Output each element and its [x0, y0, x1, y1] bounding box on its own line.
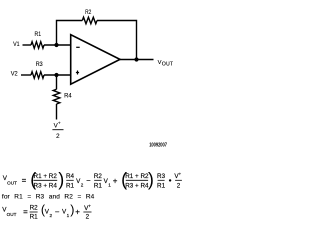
- svg-text:OUT: OUT: [162, 62, 173, 68]
- svg-text:for R1 = R3 and R2 = R4: for R1 = R3 and R2 = R4: [2, 193, 95, 200]
- svg-text:2: 2: [56, 133, 60, 140]
- svg-text:1: 1: [108, 182, 111, 187]
- svg-text:+: +: [58, 122, 61, 127]
- svg-text:+: +: [75, 208, 80, 217]
- svg-text:=: =: [22, 176, 27, 185]
- svg-text:R3: R3: [157, 173, 166, 180]
- svg-text:V2: V2: [11, 70, 18, 77]
- svg-text:R2: R2: [94, 173, 103, 180]
- wire V2 to R3: [21, 74, 31, 76]
- formula line 3: [2, 203, 91, 220]
- node A inverting input junction: [54, 43, 58, 47]
- svg-text:R3 + R4: R3 + R4: [125, 183, 149, 190]
- svg-text:−: −: [55, 207, 60, 216]
- svg-text:R1 + R2: R1 + R2: [34, 173, 58, 180]
- resistor R1: [31, 42, 44, 49]
- wire R4 to V+/2: [56, 104, 58, 120]
- wire op-amp output: [120, 59, 154, 61]
- wire R2 to output node: [97, 21, 137, 60]
- svg-text:R1: R1: [30, 213, 39, 220]
- svg-text:+: +: [88, 203, 91, 208]
- svg-text:2: 2: [81, 182, 84, 187]
- svg-text:2: 2: [86, 214, 90, 221]
- svg-text:+: +: [113, 176, 118, 185]
- svg-text:R4: R4: [66, 173, 75, 180]
- wire R3 to non-inverting input: [44, 74, 71, 76]
- op-amp U1: [71, 35, 120, 84]
- svg-text:=: =: [23, 207, 28, 216]
- svg-text:V1: V1: [13, 41, 20, 48]
- wire R1 to inverting input: [44, 44, 71, 46]
- svg-text:2: 2: [50, 213, 53, 218]
- svg-text:OUT: OUT: [7, 212, 17, 217]
- svg-text:R1: R1: [157, 183, 166, 190]
- wire V1 to R1: [23, 44, 32, 46]
- svg-text:R3: R3: [36, 61, 43, 68]
- svg-text:10092007: 10092007: [149, 142, 167, 148]
- formula line 1: [3, 170, 182, 190]
- svg-text:R1: R1: [35, 31, 42, 38]
- node output junction: [134, 57, 138, 61]
- svg-text:R4: R4: [64, 92, 72, 99]
- resistor R4: [53, 89, 60, 104]
- svg-text:): ): [70, 203, 74, 217]
- svg-text:R1: R1: [66, 183, 75, 190]
- resistor R2: [82, 17, 97, 24]
- svg-text:R2: R2: [30, 205, 39, 212]
- node B non-inverting input junction: [54, 73, 58, 77]
- resistor R3: [31, 72, 44, 79]
- svg-text:1: 1: [67, 213, 70, 218]
- svg-text:): ): [148, 170, 154, 190]
- svg-text:R2: R2: [85, 9, 92, 16]
- svg-text:2: 2: [177, 183, 181, 190]
- wire node A up and over to R2: [57, 21, 83, 46]
- svg-text:R1 + R2: R1 + R2: [125, 173, 149, 180]
- svg-text:R3 + R4: R3 + R4: [34, 183, 58, 190]
- svg-text:R1: R1: [94, 183, 103, 190]
- svg-text:+: +: [179, 172, 182, 177]
- wire node B down to R4: [56, 75, 58, 89]
- svg-text:OUT: OUT: [7, 180, 17, 185]
- svg-text:): ): [58, 170, 64, 190]
- svg-text:−: −: [86, 176, 91, 185]
- supply V+/2: [52, 122, 63, 140]
- label VOUT: [158, 60, 174, 68]
